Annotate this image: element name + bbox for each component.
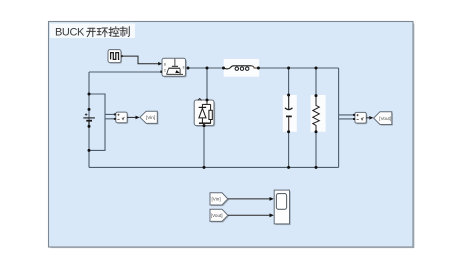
svg-text:E: E [183,65,185,69]
signal wire: from Vin to scope [228,198,270,200]
signal wire: pulse generator to IGBT gate [123,56,159,64]
port dot (223.5,68) [222,67,225,70]
wire: top rail inductor to right [258,67,338,69]
wire: capacitor branch [288,68,290,167]
junction (89,94) [88,93,91,96]
port dot battery - (89,126.4) [88,125,91,128]
wire: diode branch bottom [203,126,205,168]
goto tag [Vout] [374,112,393,126]
wire: resistor branch [315,68,317,167]
svg-text:[Vin]: [Vin] [146,115,155,120]
DC voltage source (battery) [83,113,95,125]
hanzi 制 [120,27,129,37]
resistor R [311,95,326,132]
capacitor C [283,95,297,132]
title annotation BUCK 开环控制 [50,24,135,39]
port dot battery + (89,109.4) [88,108,91,111]
wire: collector feed horizontal [89,71,162,73]
wire: top rail IGBT to inductor [188,67,223,69]
port dot cap bottom (288.6,131.7) [287,130,290,133]
svg-text:[Vin]: [Vin] [212,197,221,202]
junction (89,150.4) [88,149,91,152]
voltage measurement Vin [114,112,128,124]
junction (207,68) [206,67,209,70]
svg-text:[Vout]: [Vout] [211,213,223,218]
wire: Vout measurement taps [339,115,354,119]
diode D1 with snubber [194,99,215,127]
port dot diode top (207,100) [206,99,209,102]
junction (288.6,68) [287,67,290,70]
junction (316,68) [315,67,318,70]
goto tag [Vin] [140,111,159,124]
IGBT U1 [160,58,187,77]
junction (204,167.4) [203,166,206,169]
junction (316,167.4) [315,166,318,169]
from tag [Vin] [210,193,229,206]
signal wire: VM Vout to goto tag [366,117,369,119]
signal wire: VM Vin to goto tag [127,116,135,118]
port dot res top (316,95.6) [315,94,318,97]
hanzi 控 [109,27,119,37]
wire: Vin measurement taps [89,94,114,150]
svg-text:BUCK: BUCK [55,27,85,39]
voltage measurement Vout [353,112,367,124]
port dot (258.4,68) [257,67,260,70]
inductor L [224,59,260,77]
from tag [Vout] [210,209,229,222]
signal wire: from Vout to scope [228,214,270,216]
junction (288.6,167.4) [287,166,290,169]
port dot E (188,68) [187,67,190,70]
port dot diode bottom (204,125.6) [203,124,206,127]
wire: bottom rail [89,166,339,168]
wire: diode branch top [206,68,208,100]
hanzi 环 [97,28,108,37]
wire: battery branch vertical [88,72,90,167]
port dot res bottom (316,131.7) [315,130,318,133]
svg-text:[Vout]: [Vout] [379,116,391,121]
hanzi 开 [87,28,96,36]
wire: right vertical [338,68,340,167]
svg-text:g: g [164,62,166,66]
scope block [274,190,290,225]
pulse generator block [108,50,123,64]
port dot cap top (288.6,95) [287,94,290,97]
